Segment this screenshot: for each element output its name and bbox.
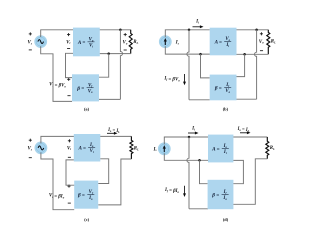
svg-text:A =: A = xyxy=(211,146,219,152)
svg-text:β =: β = xyxy=(211,192,219,198)
svg-text:Ii: Ii xyxy=(225,43,229,48)
svg-text:RL: RL xyxy=(270,146,275,151)
svg-text:RL: RL xyxy=(134,146,139,151)
svg-text:Ii: Ii xyxy=(195,19,199,24)
svg-text:(d): (d) xyxy=(223,217,229,222)
svg-text:Vo: Vo xyxy=(225,89,230,94)
svg-text:β =: β = xyxy=(214,85,222,91)
svg-text:RL: RL xyxy=(133,40,138,45)
svg-text:A =: A = xyxy=(78,146,86,152)
svg-text:Ii: Ii xyxy=(191,127,195,132)
svg-text:Vi: Vi xyxy=(66,40,70,45)
svg-text:(b): (b) xyxy=(223,106,229,111)
svg-text:Ii: Ii xyxy=(223,150,227,155)
svg-text:β =: β = xyxy=(76,86,84,92)
svg-text:Io: Io xyxy=(222,196,227,201)
svg-text:(c): (c) xyxy=(84,217,89,222)
svg-text:Vi: Vi xyxy=(67,146,71,151)
svg-text:A =: A = xyxy=(214,39,222,45)
svg-text:Io: Io xyxy=(88,196,93,201)
svg-text:A =: A = xyxy=(77,40,85,46)
svg-text:Vi: Vi xyxy=(89,43,93,48)
svg-text:Vo: Vo xyxy=(88,89,93,94)
svg-text:Vo: Vo xyxy=(259,40,264,45)
svg-text:(a): (a) xyxy=(84,106,90,111)
svg-text:β =: β = xyxy=(77,193,85,199)
svg-text:Vi: Vi xyxy=(90,149,94,154)
svg-text:RL: RL xyxy=(271,39,276,44)
svg-text:Vo: Vo xyxy=(122,41,127,46)
